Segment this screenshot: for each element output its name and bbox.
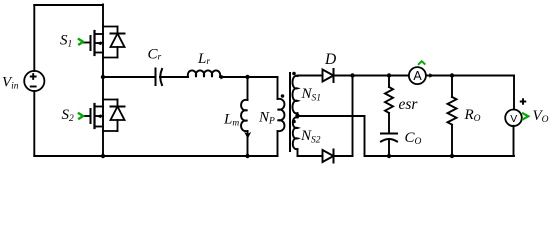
- svg-text:D: D: [324, 51, 336, 68]
- svg-text:esr: esr: [399, 96, 419, 113]
- svg-text:V: V: [510, 113, 517, 125]
- svg-text:A: A: [413, 69, 422, 83]
